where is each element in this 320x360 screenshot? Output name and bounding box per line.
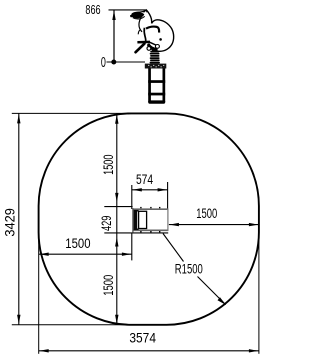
svg-text:1500: 1500 <box>196 206 217 221</box>
svg-text:3574: 3574 <box>129 331 156 346</box>
svg-text:429: 429 <box>99 216 114 232</box>
svg-text:1500: 1500 <box>101 155 116 175</box>
svg-text:1500: 1500 <box>65 236 90 251</box>
svg-text:0: 0 <box>101 55 106 71</box>
svg-text:866: 866 <box>85 2 100 17</box>
svg-text:1500: 1500 <box>101 275 116 296</box>
svg-text:R1500: R1500 <box>175 261 203 276</box>
svg-text:3429: 3429 <box>3 208 18 237</box>
svg-text:574: 574 <box>136 172 153 187</box>
